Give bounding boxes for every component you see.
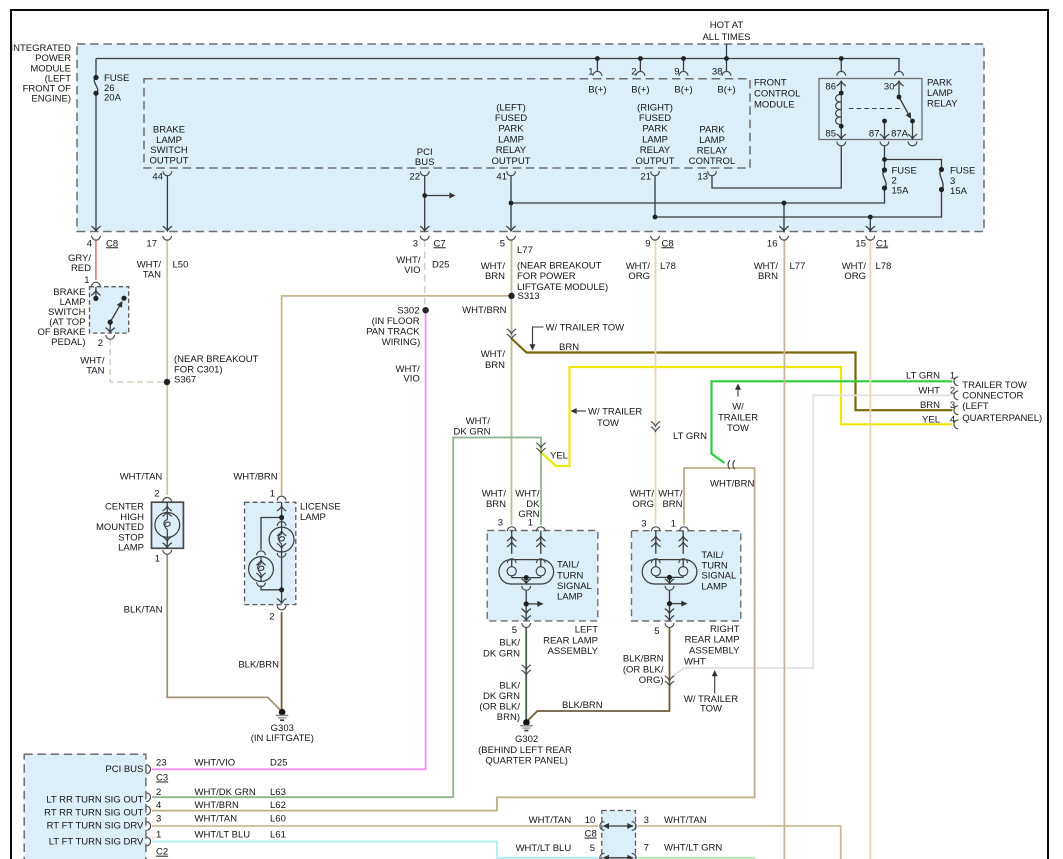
svg-text:OUTPUT: OUTPUT [149, 155, 188, 166]
svg-text:BRN: BRN [485, 360, 505, 371]
svg-text:L78: L78 [660, 261, 676, 272]
svg-text:ORG: ORG [844, 271, 866, 282]
svg-text:WHT/BRN: WHT/BRN [462, 305, 506, 316]
svg-text:10: 10 [585, 815, 596, 826]
svg-text:ORG: ORG [632, 499, 654, 510]
svg-text:(BEHIND LEFT REAR: (BEHIND LEFT REAR [478, 745, 572, 756]
svg-text:RT FT TURN SIG DRV: RT FT TURN SIG DRV [47, 820, 144, 831]
svg-text:13: 13 [697, 171, 708, 182]
svg-text:HOT AT: HOT AT [710, 20, 744, 31]
svg-text:MOUNTED: MOUNTED [96, 522, 144, 533]
svg-text:TOW: TOW [727, 423, 749, 434]
svg-text:2: 2 [98, 338, 103, 349]
svg-text:DK GRN: DK GRN [454, 426, 491, 437]
svg-text:LAMP: LAMP [699, 135, 725, 146]
svg-text:MODULE: MODULE [754, 99, 795, 110]
svg-text:PARK: PARK [642, 124, 668, 135]
svg-text:L60: L60 [270, 814, 286, 825]
svg-text:QUARTERPANEL): QUARTERPANEL) [962, 413, 1042, 424]
svg-text:WHT/: WHT/ [630, 488, 655, 499]
svg-text:16: 16 [767, 238, 778, 249]
svg-text:BRN: BRN [486, 499, 506, 510]
svg-text:9: 9 [674, 66, 679, 77]
svg-text:C2: C2 [156, 847, 168, 858]
svg-text:ORG: ORG [628, 271, 650, 282]
svg-text:TAN: TAN [143, 269, 161, 280]
svg-text:LAMP: LAMP [300, 512, 326, 523]
svg-text:OUTPUT: OUTPUT [635, 156, 674, 167]
svg-text:3: 3 [641, 518, 646, 529]
svg-text:BUS: BUS [415, 157, 435, 168]
svg-text:W/: W/ [732, 401, 744, 412]
svg-text:REAR LAMP: REAR LAMP [543, 635, 598, 646]
svg-text:L61: L61 [270, 830, 286, 841]
svg-text:OUTPUT: OUTPUT [491, 156, 530, 167]
svg-text:FRONT: FRONT [754, 77, 787, 88]
svg-text:(OR BLK/: (OR BLK/ [479, 701, 520, 712]
svg-text:W/ TRAILER TOW: W/ TRAILER TOW [546, 322, 625, 333]
svg-text:23: 23 [156, 758, 167, 769]
svg-text:TOW: TOW [597, 418, 619, 429]
svg-text:5: 5 [512, 625, 517, 636]
svg-text:REAR LAMP: REAR LAMP [685, 635, 740, 646]
svg-text:WHT/TAN: WHT/TAN [195, 814, 238, 825]
svg-text:LEFT: LEFT [575, 624, 598, 635]
svg-text:TOW: TOW [700, 703, 722, 714]
svg-text:(IN LIFTGATE): (IN LIFTGATE) [251, 733, 314, 744]
svg-text:FUSE: FUSE [950, 165, 975, 176]
svg-text:LT RR TURN SIG OUT: LT RR TURN SIG OUT [46, 795, 143, 806]
svg-text:RELAY: RELAY [496, 145, 527, 156]
svg-text:PCI BUS: PCI BUS [105, 764, 143, 775]
svg-text:BLK/: BLK/ [499, 638, 520, 649]
svg-text:L77: L77 [790, 261, 806, 272]
svg-text:BLK/BRN: BLK/BRN [562, 700, 603, 711]
svg-text:4: 4 [156, 800, 161, 811]
svg-text:VIO: VIO [403, 373, 419, 384]
svg-text:WHT/: WHT/ [482, 488, 507, 499]
svg-text:B(+): B(+) [588, 84, 606, 95]
svg-text:C7: C7 [434, 238, 446, 249]
svg-text:S313: S313 [518, 291, 540, 302]
svg-text:WHT/VIO: WHT/VIO [195, 758, 236, 769]
svg-text:LAMP: LAMP [642, 134, 668, 145]
svg-text:(IN FLOOR: (IN FLOOR [372, 316, 420, 327]
svg-text:15A: 15A [892, 185, 910, 196]
svg-text:(RIGHT): (RIGHT) [637, 102, 673, 113]
svg-text:LAMP: LAMP [557, 591, 583, 602]
svg-text:WHT/DK GRN: WHT/DK GRN [195, 787, 256, 798]
svg-text:BRN: BRN [920, 400, 940, 411]
svg-text:1: 1 [588, 66, 593, 77]
svg-text:SIGNAL: SIGNAL [701, 571, 736, 582]
svg-text:3: 3 [498, 517, 503, 528]
svg-text:D25: D25 [432, 259, 449, 270]
svg-text:WHT/LT BLU: WHT/LT BLU [195, 830, 251, 841]
svg-text:(OR BLK/: (OR BLK/ [623, 664, 664, 675]
svg-text:LT FT TURN SIG DRV: LT FT TURN SIG DRV [49, 837, 144, 848]
svg-text:C8: C8 [106, 238, 118, 249]
svg-text:DK GRN: DK GRN [483, 691, 520, 702]
svg-text:87A: 87A [891, 128, 909, 139]
svg-text:1: 1 [156, 830, 161, 841]
svg-text:2: 2 [269, 611, 274, 622]
svg-text:L62: L62 [270, 800, 286, 811]
svg-text:RT RR TURN SIG OUT: RT RR TURN SIG OUT [44, 807, 143, 818]
svg-text:RIGHT: RIGHT [710, 624, 740, 635]
svg-text:W/ TRAILER: W/ TRAILER [588, 406, 642, 417]
svg-text:WHT/LT GRN: WHT/LT GRN [664, 842, 722, 853]
svg-text:C8: C8 [585, 829, 597, 840]
svg-text:BLK/: BLK/ [499, 680, 520, 691]
svg-text:TRAILER: TRAILER [718, 412, 758, 423]
svg-text:FOR POWER: FOR POWER [517, 271, 576, 282]
svg-text:(NEAR BREAKOUT: (NEAR BREAKOUT [517, 260, 602, 271]
svg-text:2: 2 [154, 488, 159, 499]
svg-text:G302: G302 [515, 734, 538, 745]
svg-text:ASSEMBLY: ASSEMBLY [547, 646, 598, 657]
svg-text:LT GRN: LT GRN [673, 431, 707, 442]
svg-text:RELAY: RELAY [697, 146, 728, 157]
svg-text:S367: S367 [174, 374, 196, 385]
svg-text:SIGNAL: SIGNAL [557, 581, 592, 592]
svg-text:WHT: WHT [684, 656, 706, 667]
svg-text:TAIL/: TAIL/ [557, 560, 579, 571]
svg-text:1: 1 [528, 517, 533, 528]
svg-text:L78: L78 [876, 261, 892, 272]
svg-text:WHT/LT BLU: WHT/LT BLU [516, 843, 572, 854]
svg-text:1: 1 [950, 371, 955, 382]
svg-text:5: 5 [654, 626, 659, 637]
svg-text:CONTROL: CONTROL [689, 156, 735, 167]
svg-text:2: 2 [156, 787, 161, 798]
svg-text:1: 1 [270, 488, 275, 499]
svg-text:B(+): B(+) [674, 84, 692, 95]
svg-text:2: 2 [631, 66, 636, 77]
svg-text:WHT/TAN: WHT/TAN [120, 471, 163, 482]
svg-text:LAMP: LAMP [701, 581, 727, 592]
svg-text:BRN): BRN) [497, 712, 520, 723]
svg-text:20A: 20A [104, 93, 122, 104]
svg-text:DK GRN: DK GRN [483, 648, 520, 659]
svg-text:TAIL/: TAIL/ [701, 550, 723, 561]
svg-text:86: 86 [825, 82, 836, 93]
svg-text:3: 3 [413, 238, 418, 249]
svg-text:5: 5 [500, 238, 505, 249]
svg-text:BLK/BRN: BLK/BRN [623, 654, 664, 665]
svg-text:85: 85 [825, 128, 836, 139]
svg-text:(LEFT: (LEFT [962, 401, 989, 412]
svg-text:ALL TIMES: ALL TIMES [702, 32, 750, 43]
svg-text:41: 41 [496, 171, 507, 182]
svg-text:ORG): ORG) [639, 675, 664, 686]
svg-text:C1: C1 [876, 238, 888, 249]
svg-text:TURN: TURN [701, 560, 728, 571]
svg-text:L63: L63 [270, 787, 286, 798]
svg-text:17: 17 [146, 238, 157, 249]
svg-text:5: 5 [590, 843, 595, 854]
svg-text:22: 22 [409, 171, 420, 182]
svg-text:3: 3 [950, 400, 955, 411]
svg-text:VIO: VIO [404, 265, 420, 276]
svg-text:L77: L77 [517, 245, 533, 256]
svg-text:1: 1 [84, 275, 89, 286]
svg-text:WHT/TAN: WHT/TAN [529, 815, 572, 826]
svg-text:44: 44 [152, 171, 163, 182]
svg-text:WHT/: WHT/ [515, 488, 540, 499]
svg-text:1: 1 [155, 553, 160, 564]
svg-text:TURN: TURN [557, 570, 584, 581]
svg-text:BRN: BRN [662, 499, 682, 510]
svg-text:3: 3 [156, 814, 161, 825]
svg-text:C3: C3 [156, 773, 168, 784]
svg-text:B(+): B(+) [631, 84, 649, 95]
svg-text:4: 4 [950, 414, 955, 425]
svg-text:WHT/TAN: WHT/TAN [664, 815, 707, 826]
svg-text:ENGINE): ENGINE) [31, 93, 71, 104]
svg-text:B(+): B(+) [717, 84, 735, 95]
svg-text:WHT/BRN: WHT/BRN [233, 471, 277, 482]
svg-text:L50: L50 [173, 259, 189, 270]
svg-text:30: 30 [884, 82, 895, 93]
svg-text:PEDAL): PEDAL) [51, 337, 85, 348]
svg-text:LT GRN: LT GRN [906, 371, 940, 382]
svg-text:YEL: YEL [550, 450, 568, 461]
svg-text:YEL: YEL [922, 414, 940, 425]
svg-text:BRN: BRN [559, 342, 579, 353]
svg-text:(NEAR BREAKOUT: (NEAR BREAKOUT [174, 354, 259, 365]
svg-text:RED: RED [71, 263, 91, 274]
svg-text:WHT/BRN: WHT/BRN [195, 800, 239, 811]
svg-text:BLK/BRN: BLK/BRN [238, 660, 279, 671]
svg-text:TAN: TAN [86, 365, 104, 376]
svg-text:WHT/: WHT/ [481, 349, 506, 360]
svg-text:15A: 15A [950, 186, 968, 197]
svg-text:1: 1 [671, 518, 676, 529]
svg-text:87: 87 [869, 128, 880, 139]
svg-text:RELAY: RELAY [927, 98, 958, 109]
svg-text:PARK: PARK [927, 77, 953, 88]
svg-text:(LEFT): (LEFT) [496, 102, 526, 113]
svg-text:WHT/BRN: WHT/BRN [710, 479, 754, 490]
svg-text:WIRING): WIRING) [382, 337, 421, 348]
svg-text:38: 38 [712, 66, 723, 77]
svg-text:BRN: BRN [758, 271, 778, 282]
svg-text:BLK/TAN: BLK/TAN [124, 604, 163, 615]
svg-text:WHT: WHT [918, 385, 940, 396]
svg-text:BRN: BRN [485, 271, 505, 282]
svg-text:PARK: PARK [498, 124, 524, 135]
svg-text:ASSEMBLY: ASSEMBLY [689, 645, 740, 656]
svg-text:FUSED: FUSED [639, 113, 671, 124]
svg-text:C8: C8 [662, 238, 674, 249]
svg-text:TRAILER TOW: TRAILER TOW [962, 380, 1027, 391]
svg-text:LAMP: LAMP [118, 542, 144, 553]
svg-text:4: 4 [87, 238, 92, 249]
svg-text:QUARTER PANEL): QUARTER PANEL) [485, 755, 568, 766]
svg-text:WHT/: WHT/ [466, 416, 491, 427]
svg-text:PAN TRACK: PAN TRACK [366, 327, 420, 338]
svg-text:WHT/: WHT/ [658, 488, 683, 499]
svg-text:2: 2 [950, 385, 955, 396]
svg-text:LAMP: LAMP [927, 88, 953, 99]
svg-text:LAMP: LAMP [498, 134, 524, 145]
svg-text:RELAY: RELAY [640, 145, 671, 156]
svg-text:15: 15 [855, 238, 866, 249]
svg-text:FUSED: FUSED [495, 113, 527, 124]
svg-text:CONTROL: CONTROL [754, 88, 800, 99]
svg-text:21: 21 [640, 171, 651, 182]
svg-text:D25: D25 [270, 758, 287, 769]
svg-text:9: 9 [645, 238, 650, 249]
svg-text:7: 7 [644, 842, 649, 853]
svg-text:S302: S302 [397, 305, 419, 316]
svg-text:3: 3 [644, 815, 649, 826]
